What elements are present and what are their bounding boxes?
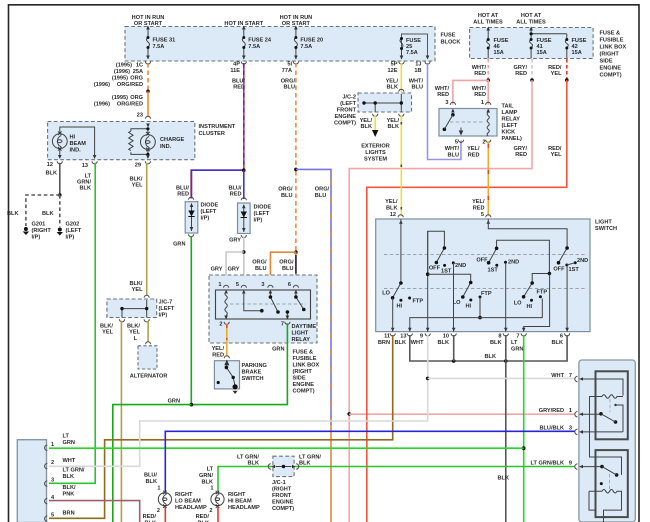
ground G201 (24, 227, 28, 231)
svg-text:23: 23 (137, 113, 143, 119)
svg-text:1B: 1B (414, 68, 421, 74)
svg-text:(1995): (1995) (116, 63, 132, 69)
svg-text:I/P): I/P) (159, 313, 168, 319)
wire WHT/RED split to tail relay pins 3 and 1 (453, 80, 488, 104)
svg-text:HEADLAMP: HEADLAMP (175, 505, 207, 511)
svg-text:LT GRN/: LT GRN/ (63, 468, 85, 474)
left connector box (17, 440, 46, 522)
svg-text:LO BEAM: LO BEAM (175, 499, 201, 505)
svg-text:GRY/RED: GRY/RED (539, 408, 564, 414)
connector pin 4 (45, 498, 48, 503)
hi beam relay (lower) thick box (596, 450, 628, 517)
svg-text:ORG/: ORG/ (252, 260, 267, 266)
svg-text:BLU/BLK: BLU/BLK (539, 426, 564, 432)
dimmer 2 (LO HI FTP) (428, 274, 471, 297)
wire YEL/BLK to exterior lights system arrow (374, 115, 376, 130)
svg-text:GRY: GRY (229, 238, 241, 244)
fuse 31 (147, 27, 150, 60)
tail relay switch arm (443, 128, 447, 132)
wire YEL/RED tail relay pin2 to light switch pin5 (487, 141, 489, 216)
svg-text:RIGHT: RIGHT (175, 492, 193, 498)
svg-text:RELAY: RELAY (502, 117, 521, 123)
svg-text:12: 12 (47, 162, 53, 168)
svg-text:FTP: FTP (481, 291, 492, 297)
wire ORG/BLU fuse20 (dashed) (295, 63, 297, 168)
svg-text:HI: HI (397, 304, 403, 310)
wire RED/BLK lo beam down (164, 507, 166, 522)
svg-text:BEAM: BEAM (70, 141, 87, 147)
svg-text:I/P): I/P) (254, 218, 263, 224)
dimmer 2 FTP contact down to pin13 bus (479, 297, 481, 318)
svg-text:HI: HI (70, 135, 76, 141)
svg-text:KICK: KICK (502, 130, 516, 136)
wire GRN to bottom left (113, 405, 192, 522)
svg-text:FUSIBLE: FUSIBLE (600, 38, 624, 44)
svg-text:LAMP: LAMP (502, 110, 518, 116)
svg-text:FUSE 20: FUSE 20 (300, 38, 323, 44)
svg-text:BLK: BLK (387, 85, 399, 91)
svg-text:BLK: BLK (386, 206, 398, 212)
svg-text:I/P): I/P) (66, 235, 75, 241)
rotary 3 1ST contact to pin 6 (566, 265, 568, 332)
svg-text:BRAKE: BRAKE (242, 370, 262, 376)
rotary 2 (OFF 1ST 2ND) (489, 240, 550, 273)
daytime light relay (dashed box) (209, 275, 317, 343)
svg-text:FUSE 31: FUSE 31 (153, 38, 176, 44)
svg-text:COMPT): COMPT) (272, 506, 294, 512)
pin 13 FTP bus (410, 299, 543, 332)
right hi beam headlamp (211, 493, 224, 506)
wire ORG/BLU branch to daytime light relay pins 3/6 (294, 168, 298, 172)
svg-text:1C: 1C (136, 63, 143, 69)
right relay assembly big box (579, 360, 635, 522)
wire BLU/BLK lo beam to relay pin 3 (165, 431, 574, 491)
wire WHT pin9 net (49, 335, 428, 466)
svg-text:GRY: GRY (228, 267, 240, 273)
relay1 switch (599, 412, 603, 416)
svg-text:SWITCH: SWITCH (595, 226, 617, 232)
fuse block output cups (145, 62, 150, 65)
fuse 41 with top bus to fuse 42 (530, 28, 567, 59)
svg-text:ORG: ORG (130, 95, 143, 101)
wire RED/BLK hi beam down (217, 507, 219, 522)
svg-text:ENGINE: ENGINE (272, 500, 294, 506)
svg-text:HI BEAM: HI BEAM (228, 499, 252, 505)
svg-text:PNK: PNK (63, 492, 75, 498)
wire BLK/PNK pin 4 (49, 501, 140, 522)
svg-text:CLUSTER: CLUSTER (199, 131, 225, 137)
pin 7 link to rotary2/dimmer3 feed (524, 274, 550, 332)
svg-text:(LEFT: (LEFT (201, 209, 217, 215)
svg-text:(1995): (1995) (112, 95, 128, 101)
svg-text:25A: 25A (133, 69, 143, 75)
svg-text:INSTRUMENT: INSTRUMENT (199, 124, 236, 130)
svg-text:77A: 77A (282, 68, 292, 74)
fuse 20 (294, 27, 297, 60)
diode 1 (left i/p) (189, 197, 194, 200)
svg-text:LT: LT (207, 467, 214, 473)
wire BLK/YEL J/C-7 left output to bottom (120, 321, 122, 522)
svg-text:5I: 5I (287, 62, 292, 68)
svg-text:BRN: BRN (378, 340, 390, 346)
svg-text:BLK: BLK (438, 340, 450, 346)
DRL pin6 switch (296, 292, 304, 310)
svg-text:GRN: GRN (511, 347, 523, 353)
svg-text:5: 5 (481, 212, 484, 218)
svg-text:BLK: BLK (248, 461, 260, 467)
svg-text:BLU: BLU (315, 193, 327, 199)
DRL pin3 switch (270, 292, 278, 312)
svg-text:2: 2 (219, 322, 222, 328)
svg-text:G202: G202 (66, 222, 80, 228)
svg-text:BLK: BLK (361, 124, 373, 130)
light switch bottom cups (390, 333, 395, 336)
svg-text:ORG/RED: ORG/RED (117, 82, 143, 88)
svg-text:L: L (134, 336, 138, 342)
svg-text:COMPT): COMPT) (334, 121, 356, 127)
svg-text:WHT: WHT (411, 340, 424, 346)
svg-text:ORG/: ORG/ (279, 260, 294, 266)
wire LT GRN pin7 down + junction (523, 335, 525, 522)
svg-text:6: 6 (560, 334, 563, 340)
svg-text:RED: RED (474, 71, 486, 77)
svg-text:1ST: 1ST (441, 269, 452, 275)
rotary 1 2ND contact to pin 10 (453, 263, 455, 332)
DRL coil pin1-pin2 (225, 292, 227, 319)
svg-text:6: 6 (288, 282, 291, 288)
svg-text:HI: HI (466, 304, 472, 310)
right lo beam headlamp (158, 493, 171, 506)
svg-text:RED: RED (474, 92, 486, 98)
svg-text:2ND: 2ND (455, 263, 466, 269)
wire GRN DRL pin7 down (191, 323, 287, 404)
svg-text:BLK: BLK (388, 124, 400, 130)
svg-text:2: 2 (51, 460, 54, 466)
svg-text:ORG/RED: ORG/RED (117, 102, 143, 108)
light switch pin 12 top cup (398, 215, 403, 218)
svg-text:OFF: OFF (553, 267, 565, 273)
svg-text:IND.: IND. (70, 148, 82, 154)
svg-text:GRN: GRN (63, 440, 75, 446)
svg-text:(LEFT: (LEFT (340, 101, 356, 107)
svg-text:(1996): (1996) (114, 69, 130, 75)
svg-text:GRN: GRN (168, 399, 180, 405)
svg-text:CHARGE: CHARGE (160, 137, 185, 143)
svg-text:7.5A: 7.5A (406, 50, 418, 56)
wire BLK cluster pin12 to grounds (59, 163, 61, 195)
instrument cluster (dashed box) (48, 122, 195, 160)
svg-text:I/P): I/P) (32, 235, 41, 241)
wire BLK/YEL cluster pin29 to J/C-7 (146, 163, 148, 296)
svg-text:7: 7 (516, 334, 519, 340)
svg-text:RED: RED (177, 192, 189, 198)
svg-text:BLK/: BLK/ (63, 485, 76, 491)
svg-text:5: 5 (455, 140, 458, 146)
pin 9 feed vertical with junction to dimmer 2 (427, 231, 429, 331)
relay2 switch (600, 465, 604, 469)
svg-text:BLU: BLU (282, 266, 294, 272)
svg-text:15A: 15A (572, 50, 582, 56)
svg-text:2: 2 (482, 140, 485, 146)
wire RED/YEL fuse42 (dashed then red) (566, 59, 568, 79)
DRL pin cups top 1 5 3 6 (224, 285, 229, 288)
svg-text:ORG/: ORG/ (315, 187, 330, 193)
svg-text:8: 8 (498, 334, 501, 340)
svg-text:(1995): (1995) (112, 76, 128, 82)
dimmer 1 (pin12 wiper LO HI FTP) (393, 219, 401, 298)
svg-text:7: 7 (281, 322, 284, 328)
svg-text:OR START: OR START (134, 21, 163, 27)
svg-text:OFF: OFF (429, 266, 441, 272)
svg-text:7.5A: 7.5A (248, 44, 260, 50)
headlamp relay (upper) thick box (596, 371, 628, 439)
svg-text:FRONT: FRONT (337, 108, 357, 114)
svg-text:SIDE: SIDE (293, 376, 306, 382)
svg-text:RED: RED (473, 206, 485, 212)
tail relay pin5 arrow (459, 128, 462, 135)
svg-text:J/C-7: J/C-7 (159, 300, 173, 306)
svg-text:10: 10 (443, 334, 449, 340)
parking brake switch (224, 356, 229, 359)
svg-text:YEL: YEL (132, 287, 143, 293)
wire BLU/RED to diodes (solid) (191, 170, 244, 198)
svg-text:2ND: 2ND (508, 260, 519, 266)
svg-text:FTP: FTP (537, 290, 548, 296)
connector pin 2 (45, 463, 48, 468)
svg-text:1: 1 (210, 486, 213, 492)
svg-text:BLU: BLU (412, 85, 424, 91)
svg-text:HI: HI (527, 304, 533, 310)
svg-text:3: 3 (261, 282, 264, 288)
tail relay coil (487, 113, 489, 137)
svg-text:IND.: IND. (160, 144, 172, 150)
svg-text:1ST: 1ST (488, 268, 499, 274)
svg-text:HOT AT: HOT AT (521, 13, 542, 19)
svg-text:GRY: GRY (211, 267, 223, 273)
svg-text:FUSE: FUSE (441, 33, 456, 39)
fuse 25 sub-box (402, 34, 428, 58)
svg-text:FUSE 24: FUSE 24 (248, 38, 272, 44)
svg-text:SWITCH: SWITCH (242, 376, 264, 382)
svg-text:HOT IN START: HOT IN START (224, 21, 263, 27)
svg-text:(RIGHT: (RIGHT (272, 487, 292, 493)
svg-text:(LEFT: (LEFT (66, 228, 82, 234)
svg-text:RED/: RED/ (196, 514, 210, 520)
wire YEL/RED DRL pin2 to parking brake switch (226, 323, 228, 356)
svg-text:1: 1 (218, 282, 221, 288)
svg-text:29: 29 (135, 163, 141, 169)
relay2 coil (589, 489, 622, 522)
svg-text:LT: LT (63, 434, 70, 440)
switch internal dashed centerlines (384, 254, 586, 256)
wire WHT/RED fuse46 (dashed then dot) (487, 59, 489, 79)
fuse 25 (400, 39, 403, 60)
svg-text:PARKING: PARKING (242, 363, 267, 369)
svg-text:OR START: OR START (282, 21, 311, 27)
svg-text:7.5A: 7.5A (300, 44, 312, 50)
svg-text:BLK: BLK (146, 479, 158, 485)
svg-text:SYSTEM: SYSTEM (364, 157, 387, 163)
svg-text:RED: RED (437, 92, 449, 98)
svg-text:ORG/: ORG/ (278, 187, 293, 193)
svg-text:FTP: FTP (413, 299, 424, 305)
svg-text:LT: LT (511, 340, 518, 346)
svg-text:4P: 4P (233, 62, 240, 68)
svg-text:ENGINE: ENGINE (600, 66, 622, 72)
svg-text:9: 9 (569, 461, 572, 467)
diode 2 (left i/p) (241, 198, 246, 201)
svg-text:LIGHT: LIGHT (292, 331, 309, 337)
svg-text:YEL: YEL (102, 330, 113, 336)
svg-text:1: 1 (51, 442, 54, 448)
tail lamp relay box (439, 109, 497, 137)
rotary 1 (OFF 1ST 2ND) fed from pin 9 (428, 231, 445, 274)
wire LT GRN/BLK hi beam to J/C-1 and relay pin 9 (218, 467, 575, 492)
svg-text:3: 3 (51, 478, 54, 484)
svg-text:LINK BOX: LINK BOX (293, 363, 320, 369)
svg-text:YEL/: YEL/ (385, 199, 398, 205)
svg-text:2: 2 (157, 508, 160, 514)
svg-text:3: 3 (445, 100, 448, 106)
svg-text:BLOCK: BLOCK (441, 40, 461, 46)
svg-text:HOT AT: HOT AT (478, 13, 499, 19)
svg-text:(RIGHT: (RIGHT (600, 52, 620, 58)
svg-text:ALL TIMES: ALL TIMES (516, 20, 546, 26)
svg-text:LO: LO (514, 301, 522, 307)
svg-text:DIODE: DIODE (201, 203, 219, 209)
svg-text:WHT/: WHT/ (445, 146, 460, 152)
svg-text:5: 5 (51, 513, 54, 519)
svg-text:YEL: YEL (551, 152, 562, 158)
rotary 3 (OFF 1ST 2ND) (559, 248, 568, 263)
svg-text:BLK: BLK (490, 340, 502, 346)
svg-text:EXTERIOR: EXTERIOR (361, 144, 390, 150)
connector pin 5 (45, 516, 48, 521)
svg-text:BLU/: BLU/ (144, 473, 157, 479)
svg-text:BLK: BLK (552, 340, 564, 346)
fuse 46 (487, 28, 490, 59)
svg-text:LIGHT: LIGHT (595, 220, 612, 226)
relay1 coil (590, 395, 624, 432)
svg-text:BLK: BLK (42, 211, 54, 217)
svg-text:(LEFT: (LEFT (159, 306, 175, 312)
wire YEL/BLK fuse25 to J/C-2 (400, 63, 402, 92)
svg-text:(1996): (1996) (94, 82, 110, 88)
svg-text:BLU: BLU (255, 266, 267, 272)
svg-text:1: 1 (157, 486, 160, 492)
svg-text:1J: 1J (415, 62, 421, 68)
svg-text:GRN: GRN (173, 242, 185, 248)
svg-text:LO: LO (453, 300, 461, 306)
pin5 feed to rotary 3 pivot (488, 219, 567, 248)
wire GRN from diode1 down (190, 236, 192, 405)
svg-text:GRN: GRN (272, 347, 284, 353)
svg-text:15A: 15A (537, 50, 547, 56)
DRL dashed centerline (230, 303, 306, 305)
svg-text:BLK: BLK (395, 340, 407, 346)
wire LT GRN/BLK cluster pin13 down to connector pin3 (49, 163, 95, 484)
svg-text:ENGINE: ENGINE (335, 114, 357, 120)
svg-text:HEADLAMP: HEADLAMP (228, 505, 260, 511)
wire GRY/RED fuse41 (dashed then salmon) (531, 59, 533, 79)
wire YEL/BLK J/C-2 to light switch pin 12 (400, 115, 402, 216)
cluster pin cups 12 13 29 (57, 161, 62, 164)
rotary 2 2ND contact to pin 8 (505, 263, 507, 332)
svg-text:SIDE: SIDE (600, 59, 613, 65)
J/C-2 junction (dashed box) (358, 93, 412, 112)
svg-text:BLK: BLK (63, 474, 75, 480)
svg-text:BLK: BLK (46, 171, 58, 177)
svg-text:LIGHTS: LIGHTS (365, 150, 386, 156)
svg-text:5: 5 (236, 282, 239, 288)
svg-text:13: 13 (82, 163, 88, 169)
svg-text:YEL: YEL (129, 330, 140, 336)
link between relays (590, 432, 622, 475)
svg-text:BLU: BLU (448, 153, 460, 159)
svg-text:DAYTIME: DAYTIME (292, 324, 317, 330)
svg-text:WHT: WHT (63, 458, 76, 464)
wire BRN light switch pin 11 to connector pin 5 (49, 335, 393, 518)
wire LT GRN long horizontal from connector pin1 (49, 447, 524, 449)
svg-text:2: 2 (209, 508, 212, 514)
light switch box (376, 219, 590, 332)
svg-text:12: 12 (390, 212, 396, 218)
fuse 24 (242, 27, 245, 60)
svg-text:BLU: BLU (284, 85, 296, 91)
svg-text:RIGHT: RIGHT (228, 492, 246, 498)
svg-text:YEL/: YEL/ (467, 146, 480, 152)
svg-text:(1996): (1996) (94, 102, 110, 108)
svg-text:RED: RED (515, 71, 527, 77)
svg-text:BLK: BLK (80, 186, 92, 192)
svg-text:COMPT): COMPT) (293, 389, 315, 395)
svg-text:11E: 11E (230, 68, 240, 74)
svg-text:FRONT: FRONT (272, 493, 292, 499)
svg-text:7: 7 (569, 373, 572, 379)
svg-text:15A: 15A (494, 50, 504, 56)
fuse block (left, dashed box) (125, 27, 435, 62)
svg-text:BLK: BLK (7, 211, 19, 217)
hi beam indicator bulb (52, 127, 94, 157)
svg-text:7.5A: 7.5A (153, 44, 165, 50)
J/C-1 junction (dashed box) (273, 456, 294, 476)
wire GRY from diode2 to DRL relay pins 1/5 (243, 237, 245, 287)
svg-text:BLK: BLK (498, 476, 510, 482)
wire BLK pin8 down off page (505, 335, 507, 522)
svg-text:LINK BOX: LINK BOX (600, 45, 627, 51)
svg-text:RELAY: RELAY (292, 337, 311, 343)
svg-text:WHT: WHT (551, 373, 564, 379)
wire WHT/BLU to tail lamp relay pin5 (428, 63, 462, 160)
svg-text:J/C-1: J/C-1 (272, 480, 286, 486)
wire BLK/YEL J/C-7 to alternator (147, 321, 149, 342)
svg-text:ORG: ORG (130, 76, 143, 82)
wire ORG fuse31 to cluster (147, 63, 149, 90)
svg-text:DIODE: DIODE (254, 205, 272, 211)
svg-text:BLK: BLK (202, 480, 214, 486)
svg-text:(RIGHT: (RIGHT (32, 228, 52, 234)
dimmer 3 (LO HI FTP) (524, 274, 550, 297)
alternator (dashed box) (146, 342, 151, 345)
svg-text:ALTERNATOR: ALTERNATOR (130, 374, 168, 380)
fuse+fusible link box (right, dashed) (470, 28, 593, 59)
svg-text:ALL TIMES: ALL TIMES (473, 20, 503, 26)
svg-text:YEL: YEL (132, 183, 143, 189)
svg-text:RED: RED (212, 353, 224, 359)
fuse 42 (565, 40, 568, 59)
svg-text:LT GRN/BLK: LT GRN/BLK (531, 461, 564, 467)
svg-text:BLK: BLK (299, 461, 311, 467)
